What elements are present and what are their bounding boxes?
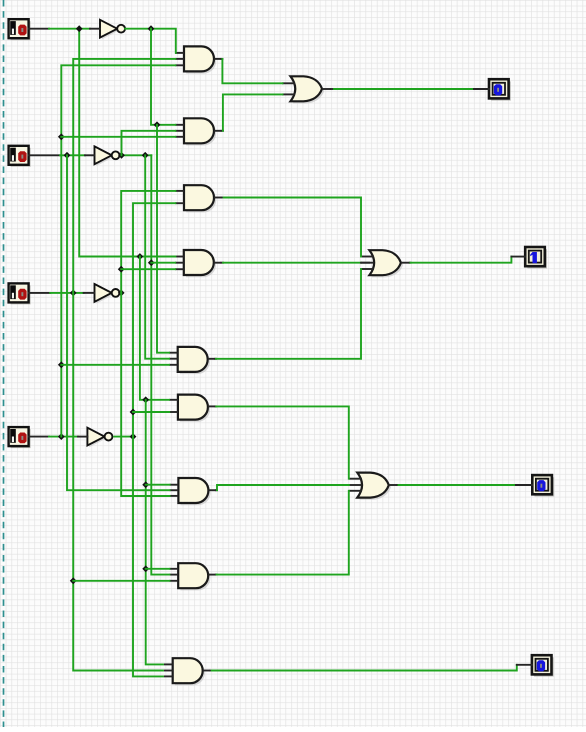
wire net A down to AND4.in1 <box>79 29 175 257</box>
wire AND1.out to OR1.in1 <box>222 59 282 83</box>
wire net B down to AND7.in2 <box>67 155 170 490</box>
junction net nA <box>148 25 155 32</box>
junction net A <box>76 25 83 32</box>
wire net nB down to AND8.in2 <box>151 155 169 574</box>
wire NOT1 input pin <box>90 28 100 30</box>
wire net nD up to AND3.in2 <box>133 203 175 436</box>
wire net C to AND8.in3 <box>73 580 169 582</box>
wire AND5 output pin <box>214 358 217 360</box>
wire AND6 output pin <box>215 405 218 407</box>
junction net nB feeds AND4.in2 <box>148 259 155 266</box>
wire OUT3 lead (dark) <box>516 484 532 486</box>
wire net nD from NOT4 <box>114 436 133 438</box>
output logic probe OUT4 <box>532 655 554 676</box>
wire IN4 lead (dark) <box>29 436 49 438</box>
wire OR1.out to OUT1 <box>334 88 474 90</box>
wire OR3 output pin <box>397 484 400 486</box>
wire net nA from NOT1 to AND1.in1 <box>125 29 176 53</box>
wire IN3 lead (dark) <box>29 292 51 294</box>
wire net nA down to AND2.in1 <box>151 29 175 125</box>
wire AND6.out to OR3.in1 <box>216 406 349 478</box>
NOT gate N4 <box>87 428 112 448</box>
wire net nC down to AND7.in3 <box>121 293 169 496</box>
wire NOT4 input pin <box>78 436 87 438</box>
wire OR3.out to OUT3 <box>399 484 516 486</box>
junction net nC feeds AND4.in3 <box>118 266 125 273</box>
wire net A to AND8.in1 <box>146 568 170 570</box>
wire AND4.out to OR2.in2 <box>223 262 361 264</box>
NOT gate N2 <box>95 146 120 166</box>
wire AND3 output pin <box>222 197 224 199</box>
wire net C down to AND9.in2 <box>73 293 163 671</box>
wire NOT3 input pin <box>84 292 95 294</box>
wire net nB to AND4.in2 <box>151 262 175 264</box>
wire OUT4 lead (dark) <box>517 664 532 666</box>
NOT gate N3 <box>95 284 120 304</box>
AND gate A6 <box>169 395 215 422</box>
wire OUT2 lead (dark) <box>511 256 525 258</box>
wire net nC from NOT3 <box>119 292 122 294</box>
output logic probe OUT1 <box>489 79 511 100</box>
wire net C up to AND1.in2 <box>73 59 175 293</box>
page edge dashed border <box>3 0 5 727</box>
wire net D up to AND1.in3 <box>61 65 175 436</box>
AND gate A4 <box>175 250 221 277</box>
wire net A to NOT1 <box>49 28 90 30</box>
junction net A / branch x140 <box>137 253 144 260</box>
OR gate O1 <box>282 76 331 103</box>
AND gate A3 <box>175 185 221 212</box>
input logic toggle IN3 <box>9 283 31 304</box>
junction net C feeds AND8.in3 <box>70 577 77 584</box>
wire net nC up to AND3.in1 <box>121 191 175 293</box>
AND gate A7 <box>170 478 216 505</box>
wire net nD down to AND9.in3 <box>133 437 163 677</box>
junction net nB at bubble <box>118 152 125 159</box>
NOT gate N1 <box>100 20 125 40</box>
wire AND9 output pin <box>210 670 211 672</box>
input logic toggle IN4 <box>9 427 31 448</box>
wire net nB from NOT2 <box>120 154 151 156</box>
wire OR2.out to OUT2 jog <box>411 257 512 263</box>
wire AND8.out to OR3.in3 <box>217 491 349 575</box>
wire AND2 output pin <box>222 130 223 132</box>
wire net nB down to AND5.in2 <box>145 155 169 358</box>
junction net B <box>64 152 71 159</box>
wire AND7.out to OR3.in2 <box>217 485 349 490</box>
junction net A feeds AND8.in1 <box>142 565 149 572</box>
junction net A / branch x145.7 <box>142 396 149 403</box>
wire net nC to AND4.in3 <box>121 268 175 270</box>
wire net nA down to AND5.in1 <box>157 125 169 353</box>
wire net nB up to AND2.in2 <box>122 131 176 156</box>
wire AND5.out to OR2.in3 <box>216 269 361 359</box>
wire net D to NOT4 <box>49 436 78 438</box>
junction net A feeds AND7.in1 <box>142 481 149 488</box>
wire net D to AND5.in3 <box>61 364 169 366</box>
junction net C <box>70 290 77 297</box>
junction net nB / branch x145 <box>142 152 149 159</box>
AND gate A8 <box>169 563 215 590</box>
output logic probe OUT2 <box>525 247 547 268</box>
input logic toggle IN1 <box>9 19 31 40</box>
junction net nD <box>130 433 137 440</box>
wire OR2 output pin <box>409 262 412 264</box>
junction net D feeds AND5.in3 <box>58 361 65 368</box>
wire IN1 lead (dark) <box>29 28 49 30</box>
wire net B to NOT2 <box>60 154 85 156</box>
AND gate A2 <box>175 118 221 145</box>
wire OR1 output pin <box>331 88 334 90</box>
wire IN2 lead (dark) <box>29 154 60 156</box>
input logic toggle IN2 <box>9 146 31 167</box>
wire net nD to AND6.in2 <box>133 411 169 413</box>
wire net A branch to AND6.in1 <box>140 257 169 400</box>
junction net D feeds AND2.in3 <box>58 133 65 140</box>
output logic probe OUT3 <box>532 475 554 496</box>
AND gate A5 <box>169 347 215 374</box>
AND gate A1 <box>175 46 221 73</box>
wire AND2.out to OR1.in2 <box>223 94 283 130</box>
wire OUT1 lead (dark) <box>474 88 489 90</box>
junction net nD feeds AND6.in2 <box>130 409 137 416</box>
junction net nA / branch x157 <box>154 121 161 128</box>
wire net D to AND2.in3 <box>61 136 175 138</box>
junction net D <box>58 433 65 440</box>
wire AND8 output pin <box>215 574 218 576</box>
wire NOT2 input pin <box>85 154 95 156</box>
wire AND1 output pin <box>221 58 224 60</box>
wire AND9.out to OUT4 jog <box>212 665 517 671</box>
junction net nC at bubble <box>118 290 125 297</box>
wire AND4 output pin <box>221 262 223 264</box>
OR gate O2 <box>361 250 410 277</box>
wire net A branch down to AND9.in1 <box>146 400 163 665</box>
wire AND7 output pin <box>216 489 217 491</box>
AND gate A9 <box>164 658 210 685</box>
wire net A to AND7.in1 <box>146 484 170 486</box>
wire net C to NOT3 <box>50 292 83 294</box>
wire AND3.out to OR2.in1 <box>224 198 361 257</box>
wire OR2.in2 pin <box>361 262 369 264</box>
OR gate O3 <box>349 473 398 500</box>
